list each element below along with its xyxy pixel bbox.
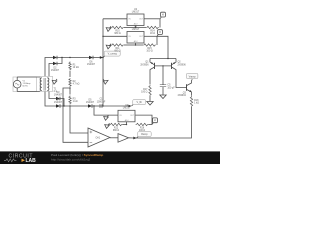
wire U4 ADJ stub: [126, 122, 128, 125]
regulator U3 LM317: [127, 25, 144, 43]
flag square U4 output: [152, 118, 157, 125]
wire diode row 1: [57, 57, 89, 59]
svg-text:http://circuitlab.com/c6b2zq2: http://circuitlab.com/c6b2zq2: [51, 158, 90, 162]
svg-text:100 Ω: 100 Ω: [146, 50, 153, 52]
diode D4: [54, 99, 63, 107]
resistor R17: [141, 85, 151, 96]
wire flag to R11: [109, 44, 111, 47]
junction chain tap: [69, 87, 70, 88]
svg-text:2N3906: 2N3906: [178, 64, 187, 66]
wire mirror base tie: [155, 65, 172, 67]
transformer T1 bounding box: [40, 76, 53, 91]
flag net on bus: [103, 79, 108, 84]
junction mirror bases: [162, 65, 163, 66]
svg-text:60 Hz: 60 Hz: [23, 86, 28, 88]
wire buffer out: [129, 137, 134, 139]
wire T1 bottom pin A to diode row 4: [45, 92, 56, 107]
svg-text:ADJ: ADJ: [125, 119, 129, 122]
flag square U3 output: [157, 30, 162, 37]
resistor R16: [136, 123, 149, 132]
junction U3 ADJ: [135, 44, 136, 45]
svg-text:Paul Leonard (fork(s)) / Synce: Paul Leonard (fork(s)) / SyncedRamp: [51, 153, 103, 157]
junction rail feed: [167, 58, 168, 59]
junction to U4 branch: [93, 105, 94, 106]
svg-text:18 Ω: 18 Ω: [150, 33, 155, 35]
wire flag to R10: [109, 27, 111, 30]
wire T1 top pin A to diode row 1: [45, 58, 53, 77]
wire T1 top pin B to diode row 2: [49, 64, 53, 77]
buffer triangle: [118, 134, 129, 143]
wire bottom row: [60, 105, 88, 107]
wire main bus vertical: [102, 19, 104, 106]
wire to U4 IN: [94, 106, 118, 115]
resistor R12: [110, 123, 123, 132]
ground under R17: [147, 99, 153, 105]
svg-text:1N4007: 1N4007: [87, 64, 96, 66]
flag U4 adj net: [105, 123, 110, 128]
resistor R15: [143, 44, 156, 53]
resistor R18: [190, 96, 199, 107]
net tag V_filt: [128, 100, 145, 108]
svg-text:1 kΩ: 1 kΩ: [194, 103, 199, 105]
wire bus to U2 IN: [103, 18, 127, 20]
junction U2 ADJ: [135, 27, 136, 28]
diode D1: [53, 56, 57, 59]
wire U2 OUT down to R14: [159, 19, 161, 28]
wire C1 to tag: [103, 105, 128, 107]
junction bus top row: [102, 57, 103, 58]
svg-text:Vramp: Vramp: [189, 75, 197, 78]
op-amp OA1: [88, 128, 110, 147]
wire U3 output to mirror rail: [157, 36, 168, 58]
CircuitLab logo: [4, 153, 36, 164]
wire chain tap to op-amp non-inverting input: [63, 88, 88, 142]
wire D5 to C1: [92, 105, 103, 107]
wire U4 OUT down: [136, 115, 153, 124]
junction chain bottom: [69, 105, 70, 106]
wire C5 to ground: [162, 87, 164, 93]
wire T1 bottom pin B to diode row 3: [49, 92, 56, 99]
net tag Vramp: [186, 73, 198, 80]
flag U3 adj net: [106, 44, 111, 49]
AC voltage source V1: [13, 77, 31, 92]
resistor R3: [69, 96, 78, 105]
junction diode row / resistor chain: [69, 57, 70, 58]
regulator U2 LM317: [127, 8, 144, 26]
resistor R11: [111, 44, 124, 53]
ground under C5: [160, 93, 166, 99]
diode D5: [86, 99, 95, 107]
wire R18 down to ramp output: [133, 107, 191, 138]
wire D3 cathode to row 4: [60, 99, 64, 107]
voltage source V1 bounding box: [13, 77, 37, 92]
svg-text:100 µF: 100 µF: [167, 87, 175, 89]
wire chain: [69, 71, 71, 77]
resistor R10: [111, 26, 124, 35]
wire Q1 collector down: [149, 73, 151, 85]
svg-text:10 kΩ: 10 kΩ: [73, 67, 79, 69]
svg-text:OA1: OA1: [96, 137, 101, 140]
resistor R1: [69, 62, 79, 71]
svg-text:1N4007: 1N4007: [54, 94, 63, 96]
flag square U2 output: [160, 12, 165, 19]
net tag ramp output: [133, 132, 151, 140]
wire diode row 2 merge: [57, 58, 62, 64]
wire U3 OUT: [144, 35, 157, 37]
wire U3 OUT down to R15: [156, 36, 158, 45]
wire R15 to U3 ADJ: [136, 43, 144, 45]
wire chain: [69, 88, 71, 95]
wire D6 to bus: [93, 57, 103, 59]
svg-text:170 Amp: 170 Amp: [23, 82, 32, 85]
wire R14 to U2 ADJ: [136, 26, 147, 28]
wire Q2 collector to Q3 base: [176, 73, 187, 88]
wire R16 to corner: [149, 124, 153, 126]
footer bar: [0, 151, 220, 164]
svg-text:1N4007: 1N4007: [51, 70, 60, 72]
svg-text:1000 µF: 1000 µF: [97, 101, 106, 103]
svg-text:680 Ω: 680 Ω: [113, 130, 120, 132]
regulator U4 LM317: [118, 104, 135, 122]
transistor Q2 PNP: [172, 59, 187, 74]
svg-text:2N3906: 2N3906: [140, 64, 149, 66]
diode D6: [87, 56, 96, 66]
footer credit text: [51, 153, 103, 162]
svg-text:1N4007: 1N4007: [86, 102, 95, 104]
svg-text:680 Ω: 680 Ω: [114, 50, 121, 52]
svg-text:LM317: LM317: [132, 10, 140, 13]
svg-text:V_unreg: V_unreg: [108, 52, 118, 55]
wire flag to R12: [108, 124, 110, 127]
svg-text:V_filt: V_filt: [137, 101, 143, 104]
svg-text:1N4007: 1N4007: [54, 102, 63, 104]
transformer T1: [40, 78, 57, 93]
flag U2 adj net: [106, 26, 111, 31]
capacitor C1: [97, 99, 106, 108]
wire R11 to ADJ junction: [124, 44, 136, 46]
svg-text:2N3904: 2N3904: [178, 95, 187, 97]
flag net on secondary: [52, 79, 57, 84]
wire base node to C5: [162, 66, 164, 85]
resistor R2: [69, 78, 80, 87]
junction bus U3: [102, 36, 103, 37]
wire op-amp output: [110, 137, 118, 139]
wire bus to U3 IN: [103, 35, 127, 37]
resistor R14: [146, 26, 159, 35]
svg-text:LAB: LAB: [26, 158, 37, 164]
diode D3: [54, 92, 63, 100]
transistor Q3 NPN: [178, 81, 192, 98]
junction bus bottom row: [102, 105, 103, 106]
svg-text:ADJ: ADJ: [134, 40, 138, 43]
junction D3/D4: [63, 105, 64, 106]
wire U2 OUT: [144, 18, 160, 20]
wire mirror emitter rail: [150, 58, 176, 60]
wire chain to op-amp inverting input: [70, 106, 88, 133]
svg-text:1 kΩ: 1 kΩ: [73, 101, 78, 103]
svg-text:100 Ω: 100 Ω: [141, 92, 148, 94]
junction rows 1-2: [61, 57, 62, 58]
wire V1 bottom to T1: [17, 91, 40, 93]
wire R12 to ADJ: [123, 124, 127, 126]
diode D2: [51, 62, 60, 72]
wire R10 to ADJ junction: [124, 27, 136, 29]
svg-text:4.7 kΩ: 4.7 kΩ: [73, 84, 80, 86]
net tag V_unreg: [100, 51, 120, 59]
transistor Q1 PNP: [140, 59, 154, 74]
capacitor C5: [160, 84, 175, 89]
svg-text:680 Ω: 680 Ω: [114, 33, 121, 35]
svg-text:LM317: LM317: [132, 28, 140, 31]
svg-text:Ramp: Ramp: [141, 133, 148, 136]
wire V1 top to T1: [17, 76, 40, 78]
wire R17 to ground: [149, 96, 151, 99]
junction U4 ADJ: [126, 124, 127, 125]
flag U4 input net: [104, 115, 109, 120]
svg-text:LM317: LM317: [123, 107, 131, 110]
